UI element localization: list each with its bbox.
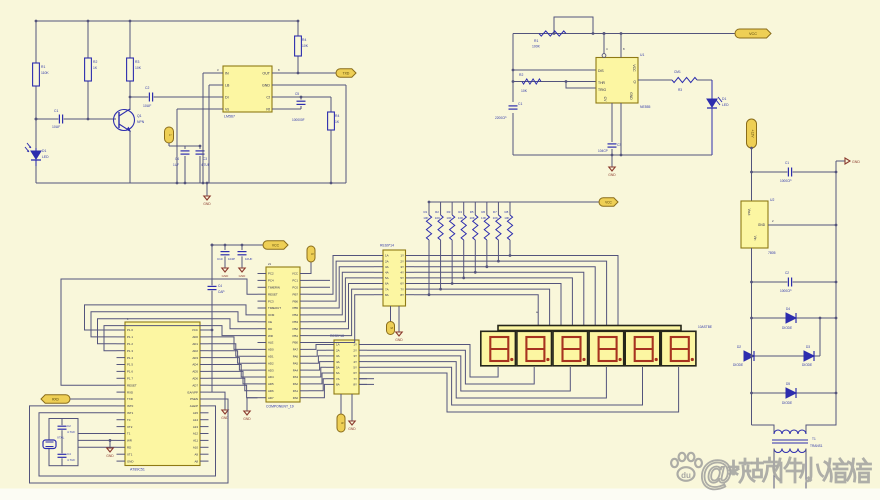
svg-text:OUT: OUT (262, 71, 270, 75)
wire reg bottom down (751, 248, 753, 318)
wire pb6 (309, 261, 375, 301)
wire digit net 2 (367, 350, 534, 384)
svg-text:10K: 10K (469, 216, 474, 220)
resistor R3 (127, 58, 134, 81)
svg-text:4A: 4A (336, 360, 340, 364)
svg-text:C1: C1 (785, 161, 789, 165)
svg-text:AD1: AD1 (268, 355, 274, 359)
svg-text:5Y: 5Y (400, 276, 404, 280)
port VCC 8155 vertical (307, 246, 315, 262)
wire left vertical TR (512, 34, 514, 103)
resistor R12 pullup (440, 202, 442, 215)
svg-text:TXD: TXD (127, 397, 133, 401)
svg-text:ALE/P: ALE/P (190, 404, 198, 408)
transistor Q1 (114, 110, 135, 131)
resistor R5 (328, 112, 335, 130)
svg-text:A13: A13 (193, 425, 199, 429)
capacitor C11 (241, 245, 243, 250)
svg-text:D2: D2 (737, 345, 741, 349)
svg-text:P1.3: P1.3 (127, 349, 133, 353)
svg-text:GND: GND (608, 173, 616, 177)
svg-text:VCC: VCC (605, 200, 612, 204)
svg-text:LB: LB (225, 83, 230, 87)
resistor network RN1 (383, 250, 406, 306)
wire pb7 (309, 256, 375, 295)
wire bridge top (752, 317, 837, 319)
wire pin2 left (209, 84, 215, 86)
svg-text:XTAL: XTAL (57, 436, 65, 440)
wire digit net 6 (367, 367, 679, 412)
svg-text:A10: A10 (193, 446, 199, 450)
svg-text:5A: 5A (336, 366, 340, 370)
svg-text:AD7: AD7 (268, 396, 274, 400)
capacitor C4a (184, 146, 186, 149)
wire left vertical TL (35, 21, 37, 148)
svg-text:1: 1 (168, 134, 172, 136)
svg-text:R1: R1 (424, 210, 428, 214)
svg-text:6A: 6A (336, 371, 340, 375)
wire regulator out (768, 224, 836, 226)
svg-text:D5: D5 (786, 382, 790, 386)
svg-text:R4: R4 (302, 38, 306, 42)
resistor R6 (539, 31, 566, 36)
svg-text:PA5: PA5 (293, 361, 299, 365)
svg-text:R6: R6 (481, 210, 485, 214)
wire pb0 (309, 295, 375, 343)
svg-text:PB5: PB5 (293, 306, 299, 310)
wire fan line 2 (414, 261, 607, 326)
wire R5 to bottom (330, 155, 332, 183)
svg-text:104P: 104P (228, 257, 235, 261)
capacitor C2 top (58, 425, 67, 430)
svg-text:1K: 1K (335, 120, 340, 124)
capacitor C6 (509, 105, 518, 110)
svg-text:10K: 10K (481, 216, 486, 220)
svg-text:P1.2: P1.2 (127, 342, 133, 346)
resistor R4 top (297, 21, 299, 73)
svg-text:TIMERIN: TIMERIN (268, 286, 280, 290)
svg-text:8A: 8A (385, 293, 389, 297)
svg-text:AD5: AD5 (192, 370, 198, 374)
svg-text:AD3: AD3 (268, 368, 274, 372)
svg-text:10K: 10K (493, 216, 498, 220)
svg-text:GND: GND (127, 459, 133, 463)
svg-text:PC1: PC1 (292, 279, 298, 283)
svg-text:C3: C3 (203, 157, 207, 161)
wire fan line 1 (414, 256, 618, 327)
svg-text:PA0: PA0 (293, 396, 299, 400)
svg-text:AD0: AD0 (192, 335, 198, 339)
svg-text:21: 21 (268, 262, 272, 266)
wire pa7 (309, 345, 327, 350)
svg-text:ALE: ALE (268, 341, 274, 345)
wire pa2 (309, 373, 327, 384)
port +12V vertical (747, 119, 757, 148)
svg-text:R3: R3 (678, 88, 682, 92)
svg-text:8Y: 8Y (353, 383, 357, 387)
svg-text:GND: GND (758, 223, 766, 227)
capacitor C8 (787, 168, 792, 177)
svg-text:C4: C4 (67, 452, 71, 456)
svg-text:A9: A9 (194, 452, 198, 456)
wire pb1 (309, 289, 375, 336)
svg-text:C2: C2 (785, 271, 789, 275)
wire CV pin down (611, 103, 613, 142)
port VCC TR (735, 29, 771, 38)
svg-text:T0: T0 (127, 418, 131, 422)
svg-text:AD6: AD6 (192, 377, 198, 381)
svg-text:INT1: INT1 (127, 411, 134, 415)
svg-text:6A: 6A (385, 282, 389, 286)
svg-text:D1: D1 (42, 149, 46, 153)
svg-text:R4: R4 (335, 114, 339, 118)
svg-text:D3: D3 (806, 345, 810, 349)
capacitor C4 decoupling (208, 285, 217, 290)
display digit DS1 (481, 331, 516, 366)
resistor R16 pullup (486, 202, 488, 215)
svg-text:DIODE: DIODE (733, 363, 743, 367)
wire fan line 6 (414, 284, 561, 327)
svg-text:AD5: AD5 (268, 382, 274, 386)
capacitor C3a (199, 146, 201, 149)
svg-text:RESET: RESET (268, 292, 278, 296)
svg-text:9: 9 (340, 422, 344, 424)
svg-text:110K: 110K (41, 71, 49, 75)
svg-text:TRIG: TRIG (598, 88, 606, 92)
svg-text:4Y: 4Y (353, 360, 357, 364)
svg-text:P1.1: P1.1 (127, 335, 133, 339)
svg-text:GND: GND (106, 454, 114, 458)
svg-text:10K: 10K (135, 66, 142, 70)
svg-text:7A: 7A (336, 377, 340, 381)
svg-text:Rt: Rt (266, 107, 270, 111)
wire bottom rail TR (513, 154, 712, 156)
svg-text:PC4: PC4 (268, 279, 274, 283)
wire pin1 left (203, 72, 215, 74)
wire PSEN wrap loop (30, 399, 229, 483)
wire VCC 8155 up to port (309, 262, 312, 274)
resistor R7 (522, 79, 541, 84)
wire digit net 4 (367, 362, 606, 398)
svg-text:RXD: RXD (127, 390, 133, 394)
wire TRIG loop (566, 82, 596, 89)
wire VCC vertical to MCU (211, 245, 213, 392)
port below RN1 (390, 306, 392, 322)
wire R2 column (87, 21, 89, 119)
wire MCU VCC to rail (209, 329, 213, 331)
capacitor C9 (787, 278, 792, 287)
wire reset net (61, 279, 258, 385)
svg-text:3A: 3A (336, 354, 340, 358)
wire ad2 (209, 351, 258, 364)
svg-text:A8: A8 (194, 459, 198, 463)
wire ad0 (209, 337, 258, 350)
resistor R8 (672, 77, 697, 82)
svg-text:4Y: 4Y (400, 271, 404, 275)
svg-text:3A: 3A (385, 265, 389, 269)
svg-text:C4: C4 (218, 284, 222, 288)
svg-text:9: 9 (390, 327, 394, 329)
svg-text:AD1: AD1 (192, 342, 198, 346)
wire EA to ground (209, 392, 226, 403)
wire C2 to pin DI (130, 96, 215, 98)
svg-text:1000CP: 1000CP (780, 289, 792, 293)
svg-text:3Y: 3Y (400, 265, 404, 269)
wire crystal inner vertical (61, 419, 63, 466)
ground 8155 VSS (247, 398, 258, 404)
svg-text:7A: 7A (385, 287, 389, 291)
svg-text:VCC: VCC (272, 243, 280, 247)
wire pb5 (309, 267, 375, 308)
svg-text:TXD: TXD (343, 71, 350, 75)
svg-text:GND: GND (262, 83, 270, 87)
svg-text:U2: U2 (770, 198, 774, 202)
svg-text:Vin: Vin (753, 236, 757, 241)
wire VCC rail MCU area (212, 244, 263, 246)
svg-text:A15: A15 (193, 411, 199, 415)
svg-text:LM567: LM567 (224, 115, 235, 119)
svg-text:XT2: XT2 (127, 425, 133, 429)
ground RN2 (351, 394, 353, 420)
svg-text:U1: U1 (640, 53, 644, 57)
wire fan line 5 (414, 278, 572, 326)
svg-text:RD: RD (268, 327, 272, 331)
svg-text:VCC: VCC (192, 328, 198, 332)
svg-text:5A: 5A (385, 276, 389, 280)
svg-text:GND: GND (629, 92, 633, 100)
svg-text:GND: GND (222, 274, 230, 278)
wire right col left vertical (751, 148, 753, 201)
svg-text:104CP: 104CP (598, 149, 608, 153)
wire p1.0 (85, 305, 258, 330)
svg-text:6Y: 6Y (353, 371, 357, 375)
resistor R17 pullup (497, 202, 499, 215)
svg-text:PA6: PA6 (293, 355, 299, 359)
svg-text:R2: R2 (93, 60, 97, 64)
port TXD (336, 69, 356, 77)
svg-text:AD2: AD2 (192, 349, 198, 353)
ground C11 (241, 256, 243, 268)
ground arrow right (836, 160, 845, 162)
wire pa5 (309, 356, 327, 363)
LED D1 (35, 148, 37, 151)
svg-text:DIODE: DIODE (782, 326, 792, 330)
svg-text:GND: GND (395, 338, 403, 342)
wire pb2 (309, 284, 375, 329)
wire ad1 (209, 344, 258, 357)
svg-text:10UF: 10UF (245, 257, 253, 261)
svg-text:CV: CV (603, 97, 607, 102)
svg-text:R4: R4 (458, 210, 462, 214)
display digit DS6 (661, 331, 696, 366)
resistor R18 pullup (509, 202, 511, 215)
svg-text:TIMEOUT: TIMEOUT (268, 306, 281, 310)
svg-text:R2: R2 (519, 73, 523, 77)
svg-text:RXD: RXD (52, 397, 59, 401)
resistor R2 (85, 58, 92, 81)
svg-text:5Y: 5Y (353, 366, 357, 370)
LED D2 (711, 80, 713, 99)
wire pin Ct (280, 96, 331, 98)
svg-text:GND: GND (243, 417, 251, 421)
svg-text:P1.7: P1.7 (127, 377, 133, 381)
wire xtal rows to mcu (78, 433, 117, 435)
wire step left to transformer (752, 425, 775, 433)
wire p1.3 (104, 326, 258, 351)
mcu U5 AT89C51 (125, 322, 200, 466)
svg-text:R3: R3 (447, 210, 451, 214)
svg-text:+12V: +12V (751, 129, 755, 138)
wire GND pin down (620, 103, 622, 155)
wire bridge inner vertical (819, 318, 821, 356)
svg-text:C5: C5 (295, 92, 299, 96)
wire right vertical RC (835, 161, 837, 393)
svg-text:LED: LED (722, 103, 729, 107)
svg-text:C10: C10 (217, 257, 223, 261)
svg-text:10K: 10K (458, 216, 463, 220)
wire 555 top pins (603, 34, 605, 54)
svg-text:PB4: PB4 (293, 313, 299, 317)
svg-text:DIODE: DIODE (802, 363, 812, 367)
svg-text:8Y: 8Y (400, 293, 404, 297)
wire ad3 (209, 358, 258, 371)
diode D3 (786, 313, 796, 323)
wire pullup rail (429, 201, 599, 203)
svg-text:Vs: Vs (225, 107, 229, 111)
svg-text:DI: DI (225, 95, 229, 99)
svg-text:Q: Q (633, 80, 636, 84)
svg-text:Q1: Q1 (137, 114, 142, 118)
display digit DS3 (553, 331, 588, 366)
svg-text:10UF: 10UF (52, 125, 60, 129)
wire digit net 3 (367, 356, 570, 391)
svg-text:CAP: CAP (218, 290, 225, 294)
svg-text:7Y: 7Y (353, 377, 357, 381)
wire DIS (513, 69, 596, 71)
svg-text:PA1: PA1 (293, 389, 299, 393)
svg-text:1Y: 1Y (400, 254, 404, 258)
wire ad4 (209, 365, 258, 378)
svg-text:R7: R7 (493, 210, 497, 214)
svg-text:AD6: AD6 (268, 389, 274, 393)
wire pa1 (309, 379, 327, 391)
diode D5 right (804, 351, 814, 361)
ground EA (224, 403, 226, 410)
svg-text:2Y: 2Y (353, 348, 357, 352)
wire emitter down (129, 131, 131, 183)
resistor R11 pullup (428, 202, 430, 215)
port P1 vertical TL (165, 127, 174, 143)
svg-text:R8: R8 (504, 210, 508, 214)
wire p1.1 (91, 312, 258, 337)
op-amp U1 LM567 (223, 66, 272, 112)
svg-text:GND: GND (239, 274, 247, 278)
svg-text:GND: GND (203, 202, 211, 206)
wire fan line 3 (414, 267, 595, 326)
wire bypass loop (554, 17, 593, 34)
svg-text:GND: GND (348, 427, 356, 431)
svg-text:COMPONENT_19: COMPONENT_19 (266, 405, 294, 409)
svg-text:AD4: AD4 (268, 375, 274, 379)
svg-text:NPN: NPN (137, 120, 145, 124)
wire ALE wrap loop (39, 406, 216, 476)
wire cap row 1 (752, 171, 837, 173)
svg-text:PA3: PA3 (293, 375, 299, 379)
svg-text:PC0: PC0 (292, 286, 298, 290)
wire fan line 7 (414, 289, 550, 326)
capacitor C1 (58, 115, 63, 124)
diode D6 (786, 388, 796, 398)
wire fan line 4 (414, 272, 584, 326)
wire collector node (129, 97, 131, 109)
svg-text:2A: 2A (385, 259, 389, 263)
wire pa3 (309, 367, 327, 377)
svg-text:R5: R5 (470, 210, 474, 214)
svg-text:2200CP: 2200CP (495, 116, 507, 120)
ground crystal (109, 439, 112, 442)
svg-text:PA7: PA7 (293, 348, 299, 352)
diode D4 left (744, 351, 754, 361)
wire pb3 (309, 278, 375, 322)
svg-text:VCC: VCC (292, 272, 298, 276)
svg-text:PB3: PB3 (293, 320, 299, 324)
ground TL (206, 183, 208, 196)
svg-text:10UF: 10UF (143, 104, 151, 108)
wire pa4 (309, 362, 327, 371)
svg-text:10K: 10K (302, 44, 309, 48)
capacitor C4b bottom (58, 453, 67, 458)
svg-text:AT89C51: AT89C51 (130, 468, 145, 472)
svg-text:AD3: AD3 (192, 356, 198, 360)
wire PC1 PC0 (309, 279, 331, 281)
display digit DS2 (517, 331, 552, 366)
svg-text:D4: D4 (786, 307, 790, 311)
svg-text:CE: CE (268, 320, 272, 324)
wire ad7 (209, 385, 258, 398)
svg-text:6Y: 6Y (400, 282, 404, 286)
svg-text:du: du (681, 471, 691, 480)
wire base (36, 118, 116, 120)
timer U2 NE555 (596, 58, 638, 104)
resistor R15 pullup (474, 202, 476, 215)
svg-text:2Y: 2Y (400, 259, 404, 263)
svg-text:10K: 10K (446, 216, 451, 220)
svg-text:1A: 1A (385, 254, 389, 258)
wire step right to transformer (806, 393, 836, 433)
svg-text:P1.5: P1.5 (127, 363, 133, 367)
svg-text:100000F: 100000F (292, 118, 305, 122)
capacitor C7 (608, 143, 617, 148)
wire digit net 5 (367, 367, 643, 405)
svg-text:NE555: NE555 (640, 105, 650, 109)
wire top rail TL (36, 20, 298, 22)
svg-text:R3: R3 (135, 60, 139, 64)
svg-text:EA/VPP: EA/VPP (188, 390, 199, 394)
crystal Y1 (43, 440, 56, 449)
wire OUT (280, 72, 336, 74)
wire cap row 2 (752, 281, 837, 283)
capacitor C10 (224, 245, 226, 250)
resistor R14 pullup (463, 202, 465, 215)
wire pb4 (309, 272, 375, 315)
wire THR (513, 81, 596, 83)
svg-text:C2: C2 (145, 86, 149, 90)
svg-text:D1: D1 (722, 97, 726, 101)
svg-text:4A: 4A (385, 271, 389, 275)
svg-text:A12: A12 (193, 432, 199, 436)
ground C10 (224, 256, 226, 268)
svg-text:WR: WR (268, 334, 273, 338)
